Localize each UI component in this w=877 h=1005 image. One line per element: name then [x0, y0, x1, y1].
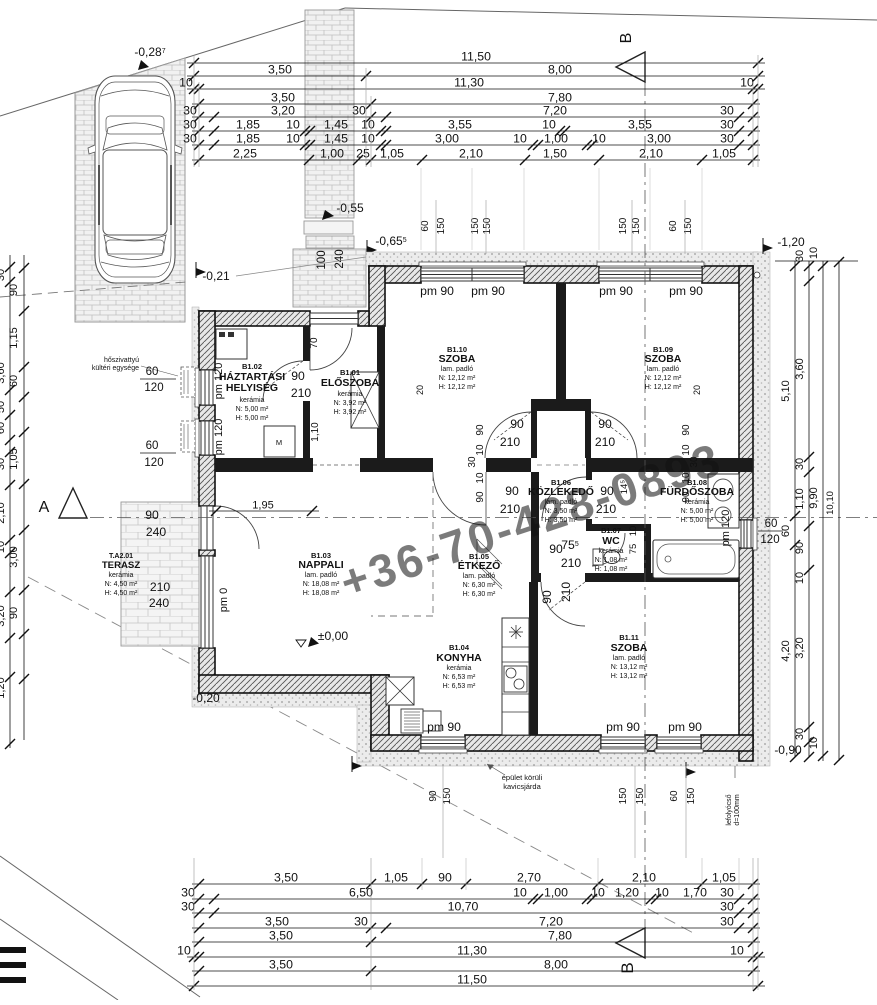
svg-text:10,70: 10,70 [448, 900, 479, 914]
window top 2x90 right [597, 262, 704, 281]
svg-text:2,25: 2,25 [233, 147, 257, 161]
svg-text:pm 0: pm 0 [218, 588, 230, 612]
svg-text:150: 150 [482, 217, 493, 234]
wall: wc east [644, 524, 651, 582]
svg-text:lam. padló: lam. padló [647, 366, 679, 373]
svg-text:1,05: 1,05 [380, 147, 404, 161]
svg-text:11,30: 11,30 [457, 944, 487, 958]
svg-text:150: 150 [618, 787, 629, 804]
svg-text:10: 10 [513, 886, 527, 900]
svg-text:pm 90: pm 90 [606, 720, 640, 734]
svg-text:TERASZ: TERASZ [102, 560, 141, 571]
svg-text:lam. padló: lam. padló [305, 572, 337, 579]
svg-text:1,15: 1,15 [8, 327, 20, 348]
svg-text:150: 150 [470, 217, 481, 234]
svg-text:90: 90 [475, 491, 486, 503]
svg-text:240: 240 [146, 525, 167, 539]
svg-text:10: 10 [628, 526, 639, 537]
svg-text:1,95: 1,95 [252, 500, 273, 512]
window top 2x90 left [419, 262, 526, 281]
toilet [593, 549, 603, 565]
terasz door arc [216, 506, 259, 549]
svg-text:210: 210 [561, 556, 582, 570]
svg-text:H: 6,30 m²: H: 6,30 m² [463, 591, 496, 598]
svg-text:kavicsjárda: kavicsjárda [503, 782, 541, 791]
svg-text:N: 13,12 m²: N: 13,12 m² [611, 664, 648, 671]
svg-text:100: 100 [316, 250, 328, 269]
svg-text:6,50: 6,50 [349, 886, 373, 900]
door etkezo arc [433, 472, 486, 525]
svg-text:7,20: 7,20 [543, 104, 567, 118]
svg-text:pm 90: pm 90 [471, 284, 505, 298]
wall: step vertical [371, 675, 389, 750]
svg-text:-0,655: -0,655 [375, 234, 406, 248]
svg-text:H: 5,00 m²: H: 5,00 m² [681, 517, 714, 524]
entry door opening [310, 313, 358, 324]
svg-text:3,50: 3,50 [268, 63, 292, 77]
right dim chain 1 [794, 261, 796, 757]
dashed line across parking bottom [0, 282, 186, 297]
svg-text:WC: WC [602, 535, 620, 547]
svg-text:pm 90: pm 90 [599, 284, 633, 298]
svg-text:60: 60 [0, 422, 7, 434]
svg-text:T.A2.01: T.A2.01 [109, 553, 133, 560]
svg-text:30: 30 [720, 886, 734, 900]
svg-text:lam. padló: lam. padló [441, 366, 473, 373]
svg-text:210: 210 [595, 435, 616, 449]
svg-text:4,20: 4,20 [780, 640, 792, 661]
wall: eloszoba/szoba B1.10 [377, 326, 385, 472]
svg-text:-1,20: -1,20 [777, 235, 805, 249]
section line A [90, 517, 877, 519]
svg-text:N: 5,00 m²: N: 5,00 m² [236, 406, 269, 413]
door bathroom arc [542, 477, 586, 521]
svg-text:d=100mm: d=100mm [734, 794, 741, 825]
svg-text:30: 30 [794, 458, 806, 470]
svg-text:3,50: 3,50 [269, 929, 293, 943]
svg-text:1,20: 1,20 [0, 677, 7, 698]
svg-text:1,85: 1,85 [236, 118, 260, 132]
svg-text:11,50: 11,50 [461, 50, 491, 64]
svg-text:H: 1,08 m²: H: 1,08 m² [595, 566, 628, 573]
svg-text:20: 20 [415, 385, 425, 395]
svg-text:B1.11: B1.11 [619, 633, 639, 642]
svg-text:10: 10 [740, 76, 754, 90]
svg-text:150: 150 [631, 217, 642, 234]
svg-text:1,10: 1,10 [794, 488, 806, 509]
extension stubs bottom block [421, 858, 423, 890]
terasz door 90 opening [201, 506, 213, 550]
svg-text:25: 25 [356, 147, 370, 161]
svg-text:150: 150 [442, 787, 453, 804]
svg-text:210: 210 [500, 435, 521, 449]
svg-text:pm 90: pm 90 [427, 720, 461, 734]
solid property line bottom-left [0, 856, 200, 997]
washing machine M [264, 426, 295, 457]
right chains connector [775, 260, 858, 262]
car top view [88, 76, 182, 283]
svg-text:3,60: 3,60 [794, 358, 806, 379]
svg-text:1,05: 1,05 [712, 147, 736, 161]
svg-text:30: 30 [720, 915, 734, 929]
svg-text:10: 10 [177, 944, 191, 958]
svg-text:10: 10 [361, 132, 375, 146]
door b1.11 arc [541, 582, 585, 626]
wall: corridor south / b1.11 north [531, 573, 541, 582]
svg-text:210: 210 [150, 580, 171, 594]
svg-text:50: 50 [0, 401, 7, 413]
vertical extension lines bottom [193, 858, 195, 990]
svg-text:150: 150 [436, 217, 447, 234]
window pm120 upper in left wall [195, 368, 213, 407]
svg-text:3,20: 3,20 [271, 104, 295, 118]
closet with X in eloszoba [351, 372, 379, 428]
svg-text:pm 120: pm 120 [213, 363, 225, 400]
svg-text:1,70: 1,70 [683, 886, 707, 900]
svg-text:kerámia: kerámia [447, 665, 472, 672]
stove symbol [509, 625, 523, 639]
svg-text:pm 90: pm 90 [668, 720, 702, 734]
fridge X box [386, 677, 414, 705]
svg-text:1,05: 1,05 [384, 871, 408, 885]
wall: etkezo/konyha east [531, 472, 539, 573]
gravel band top [366, 252, 758, 266]
window pm120 lower in left wall [195, 419, 213, 457]
svg-text:5,10: 5,10 [780, 380, 792, 401]
wall: top main (piers) [369, 266, 421, 283]
walkway step [304, 221, 353, 234]
svg-text:lefolyócső: lefolyócső [726, 794, 733, 825]
svg-text:10: 10 [286, 132, 300, 146]
svg-text:10,10: 10,10 [825, 491, 836, 515]
walkway strip [305, 10, 354, 218]
svg-text:10: 10 [730, 944, 744, 958]
svg-text:kerámia: kerámia [338, 391, 363, 398]
window szoba b1.11 east pm90 [655, 737, 703, 753]
svg-text:N: 1,08 m²: N: 1,08 m² [595, 557, 628, 564]
svg-text:9,90: 9,90 [808, 487, 820, 508]
door b1.02 arc [263, 361, 303, 401]
svg-text:N: 12,12 m²: N: 12,12 m² [439, 375, 476, 382]
vertical extension lines top [193, 55, 195, 167]
dim 1,95 [209, 510, 319, 512]
svg-text:H: 3,92 m²: H: 3,92 m² [334, 409, 367, 416]
svg-text:10: 10 [179, 76, 193, 90]
svg-text:-0,20: -0,20 [192, 691, 220, 705]
svg-text:70: 70 [309, 337, 320, 349]
svg-text:N: 5,00 m²: N: 5,00 m² [681, 508, 714, 515]
svg-text:B: B [618, 962, 637, 973]
svg-text:210: 210 [291, 386, 312, 400]
svg-text:1,85: 1,85 [236, 132, 260, 146]
svg-text:3,00: 3,00 [435, 132, 459, 146]
wall: haztartasi/eloszoba [303, 326, 310, 361]
svg-text:7,80: 7,80 [548, 929, 572, 943]
svg-text:3,00: 3,00 [8, 546, 20, 567]
svg-text:7,80: 7,80 [548, 91, 572, 105]
svg-text:B1.07: B1.07 [601, 526, 621, 535]
svg-text:1,00: 1,00 [320, 147, 344, 161]
svg-text:30: 30 [467, 456, 478, 468]
svg-text:75: 75 [628, 544, 639, 555]
svg-text:2,70: 2,70 [517, 871, 541, 885]
svg-text:90: 90 [291, 369, 305, 383]
svg-text:60: 60 [146, 440, 159, 452]
section marker B bottom [616, 928, 645, 958]
wall: right exterior [739, 266, 753, 520]
svg-text:2,10: 2,10 [0, 502, 7, 523]
svg-text:30: 30 [0, 269, 7, 281]
wall: nappali bottom [199, 675, 389, 693]
svg-text:N: 12,12 m²: N: 12,12 m² [645, 375, 682, 382]
svg-text:1,10: 1,10 [310, 422, 321, 442]
svg-text:3,55: 3,55 [628, 118, 652, 132]
svg-text:B1.04: B1.04 [449, 643, 470, 652]
svg-text:1,45: 1,45 [324, 118, 348, 132]
svg-text:30: 30 [720, 118, 734, 132]
svg-text:60: 60 [8, 375, 20, 387]
svg-text:240: 240 [149, 596, 170, 610]
kitchen sink 2 basins [504, 666, 527, 692]
svg-text:kültéri egysége: kültéri egysége [92, 365, 139, 372]
wall: spine horizontal [215, 458, 313, 472]
svg-text:N: 6,53 m²: N: 6,53 m² [443, 674, 476, 681]
svg-text:90: 90 [598, 417, 612, 431]
entry door arc [310, 328, 352, 370]
kitchen diagonal stair symbol [477, 539, 502, 589]
svg-text:60: 60 [668, 220, 679, 232]
svg-text:30: 30 [354, 915, 368, 929]
svg-text:10: 10 [808, 247, 820, 259]
svg-text:10: 10 [794, 572, 806, 584]
door wc arc [592, 533, 625, 566]
svg-text:SZOBA: SZOBA [439, 353, 476, 365]
wall: corridor/bathroom vertical [586, 472, 592, 480]
kitchen counter strip [502, 618, 529, 735]
svg-text:8,00: 8,00 [544, 958, 568, 972]
svg-text:lam. padló: lam. padló [463, 573, 495, 580]
svg-text:150: 150 [635, 787, 646, 804]
svg-text:1,05: 1,05 [8, 448, 20, 469]
drain circle top-right corner [754, 272, 760, 278]
svg-text:kerámia: kerámia [240, 397, 265, 404]
svg-text:3,00: 3,00 [647, 132, 671, 146]
svg-text:60: 60 [669, 790, 680, 802]
svg-text:-0,55: -0,55 [336, 201, 364, 215]
svg-text:3,55: 3,55 [448, 118, 472, 132]
svg-text:30: 30 [794, 250, 806, 262]
svg-text:H: 12,12 m²: H: 12,12 m² [439, 384, 476, 391]
svg-text:120: 120 [144, 382, 163, 394]
svg-text:30: 30 [183, 118, 197, 132]
parking paved area with brick pattern [75, 58, 185, 322]
svg-text:10: 10 [475, 472, 486, 484]
svg-text:90: 90 [681, 424, 692, 436]
terasz window 210 opening [201, 556, 213, 648]
svg-text:90: 90 [540, 590, 554, 604]
svg-text:pm 90: pm 90 [420, 284, 454, 298]
svg-text:N: 4,50 m²: N: 4,50 m² [105, 581, 138, 588]
svg-text:3,50: 3,50 [274, 871, 298, 885]
svg-text:M: M [276, 438, 282, 447]
svg-text:1,50: 1,50 [543, 147, 567, 161]
svg-text:H: 4,50 m²: H: 4,50 m² [105, 590, 138, 597]
svg-text:lam. padló: lam. padló [613, 655, 645, 662]
property line top-left diagonal [0, 8, 345, 116]
svg-text:7,20: 7,20 [539, 915, 563, 929]
appliance haztartasi top [216, 329, 247, 359]
svg-text:30: 30 [181, 886, 195, 900]
svg-text:240: 240 [334, 249, 346, 268]
spine opening sills [313, 464, 360, 466]
gravel band step connector [357, 705, 371, 762]
right dim chain 4 [838, 261, 840, 761]
wall: top of left section [199, 311, 310, 326]
bathroom vanity [708, 474, 739, 528]
dashed partition nappali/etkezo [432, 474, 434, 616]
window bathroom right 60 [741, 518, 757, 550]
svg-text:8,00: 8,00 [548, 63, 572, 77]
svg-text:1,45: 1,45 [324, 132, 348, 146]
dim rows bottom [192, 883, 760, 885]
svg-text:10: 10 [655, 886, 669, 900]
svg-text:11,30: 11,30 [454, 76, 484, 90]
svg-text:A: A [39, 499, 50, 516]
svg-text:pm 120: pm 120 [213, 419, 225, 456]
svg-text:H: 5,00 m²: H: 5,00 m² [236, 415, 269, 422]
svg-text:210: 210 [559, 582, 573, 602]
svg-text:2,10: 2,10 [639, 147, 663, 161]
svg-text:pm 90: pm 90 [669, 284, 703, 298]
svg-text:60: 60 [765, 518, 778, 530]
wall: transition vertical at entry [369, 266, 385, 326]
svg-text:-0,21: -0,21 [202, 269, 230, 283]
gravel band right [753, 252, 770, 766]
dishwasher grate [401, 709, 423, 733]
window szoba b1.11 west pm90 [599, 737, 647, 753]
svg-text:kerámia: kerámia [109, 572, 134, 579]
section marker B top [616, 52, 645, 82]
svg-text:10: 10 [475, 444, 486, 456]
bathtub [653, 540, 739, 578]
svg-text:-0,90: -0,90 [774, 743, 802, 757]
svg-text:-0,287: -0,287 [134, 45, 165, 59]
svg-text:20: 20 [692, 385, 702, 395]
heat pump units outside [181, 367, 195, 397]
gravel band bottom left part (nappali) [192, 693, 371, 707]
svg-text:B1.01: B1.01 [340, 368, 360, 377]
gravel band left [192, 307, 199, 697]
svg-text:60: 60 [146, 366, 159, 378]
svg-text:10: 10 [542, 118, 556, 132]
svg-text:H: 12,12 m²: H: 12,12 m² [645, 384, 682, 391]
svg-text:1,00: 1,00 [544, 886, 568, 900]
left dim chain 2 [23, 255, 25, 740]
svg-text:30: 30 [183, 132, 197, 146]
svg-text:hőszivattyú: hőszivattyú [104, 357, 139, 364]
svg-text:3,20: 3,20 [0, 605, 7, 626]
dim rows top [187, 62, 765, 64]
svg-text:3,60: 3,60 [0, 362, 7, 383]
section line B [644, 82, 646, 928]
svg-text:90: 90 [475, 424, 486, 436]
svg-text:90: 90 [8, 284, 20, 296]
svg-text:11,50: 11,50 [457, 973, 487, 987]
svg-text:60: 60 [420, 220, 431, 232]
gravel band bottom right part [357, 750, 758, 766]
dashed axis neck [537, 464, 585, 466]
svg-text:10: 10 [0, 541, 7, 553]
svg-text:90: 90 [794, 542, 806, 554]
svg-text:B: B [618, 33, 635, 44]
svg-text:2,10: 2,10 [632, 871, 656, 885]
svg-text:150: 150 [686, 787, 697, 804]
svg-text:N: 6,30 m²: N: 6,30 m² [463, 582, 496, 589]
svg-text:±0,00: ±0,00 [318, 629, 349, 643]
black bars bottom-left margin [0, 947, 26, 953]
wall: bottom of kitchen/szoba [371, 735, 421, 751]
svg-text:KONYHA: KONYHA [436, 652, 482, 664]
svg-text:2,10: 2,10 [459, 147, 483, 161]
svg-text:90: 90 [8, 607, 20, 619]
right dim chain 2 [808, 261, 810, 757]
svg-text:150: 150 [683, 217, 694, 234]
svg-text:1,20: 1,20 [615, 886, 639, 900]
svg-text:150: 150 [618, 217, 629, 234]
dashed site line bottom-left [28, 577, 697, 935]
svg-text:HELYISÉG: HELYISÉG [226, 381, 278, 394]
svg-text:30: 30 [0, 458, 7, 470]
svg-text:30: 30 [720, 104, 734, 118]
svg-text:90: 90 [145, 508, 159, 522]
svg-text:N: 3,92 m²: N: 3,92 m² [334, 400, 367, 407]
svg-text:30: 30 [720, 900, 734, 914]
svg-text:10: 10 [513, 132, 527, 146]
terasz tiles [121, 502, 199, 646]
svg-text:3,50: 3,50 [269, 958, 293, 972]
door szoba B1.09 arc [591, 412, 637, 458]
svg-text:ELŐSZOBA: ELŐSZOBA [321, 376, 380, 389]
svg-text:1,00: 1,00 [544, 132, 568, 146]
svg-text:H: 6,53 m²: H: 6,53 m² [443, 683, 476, 690]
svg-text:kerámia: kerámia [599, 548, 624, 555]
svg-text:pm 120: pm 120 [720, 510, 732, 547]
svg-text:SZOBA: SZOBA [645, 353, 682, 365]
svg-text:30: 30 [181, 900, 195, 914]
svg-text:10: 10 [286, 118, 300, 132]
svg-text:3,20: 3,20 [794, 637, 806, 658]
svg-text:N: 18,08 m²: N: 18,08 m² [303, 581, 340, 588]
svg-text:120: 120 [760, 534, 779, 546]
svg-text:B1.02: B1.02 [242, 362, 262, 371]
entry porch [293, 249, 366, 307]
window kitchen pm90 [419, 737, 467, 753]
svg-text:90: 90 [505, 484, 519, 498]
svg-text:1,05: 1,05 [712, 871, 736, 885]
svg-text:3,50: 3,50 [265, 915, 289, 929]
property line top-right [345, 8, 877, 20]
svg-text:90: 90 [428, 790, 439, 802]
svg-text:épület körüli: épület körüli [502, 773, 543, 782]
wall: left exterior [199, 311, 215, 370]
svg-text:120: 120 [144, 457, 163, 469]
svg-text:10: 10 [808, 737, 820, 749]
wall: wc north [586, 524, 651, 531]
svg-text:H: 13,12 m²: H: 13,12 m² [611, 673, 648, 680]
svg-text:30: 30 [352, 104, 366, 118]
door szoba B1.10 arc [485, 412, 531, 458]
svg-text:30: 30 [794, 728, 806, 740]
